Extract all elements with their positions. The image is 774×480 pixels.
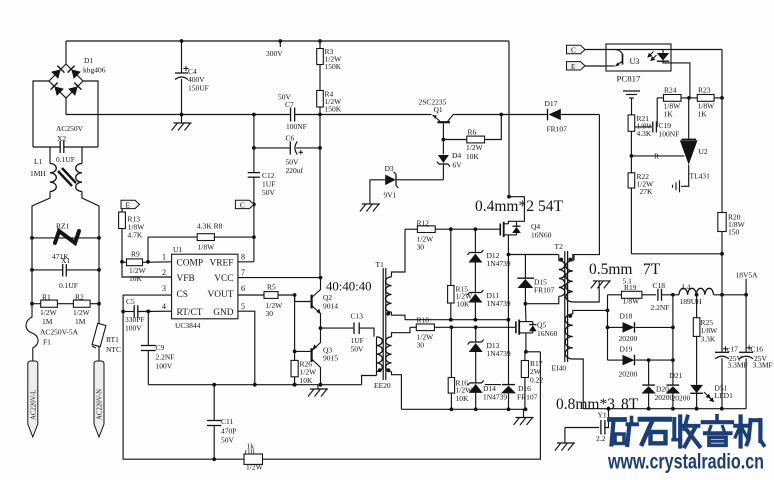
- svg-text:CS: CS: [177, 290, 188, 300]
- svg-text:R19: R19: [624, 283, 637, 292]
- svg-text:16N60: 16N60: [537, 329, 558, 338]
- svg-text:4.3K R8: 4.3K R8: [197, 222, 223, 231]
- svg-text:C5: C5: [126, 297, 135, 306]
- svg-text:0.22: 0.22: [530, 376, 543, 385]
- svg-text:150K: 150K: [325, 62, 342, 71]
- svg-text:1/8W: 1/8W: [623, 297, 641, 306]
- svg-text:AC250V-5A: AC250V-5A: [40, 328, 79, 337]
- svg-text:1N4739: 1N4739: [487, 259, 511, 268]
- svg-text:D18: D18: [620, 312, 633, 321]
- svg-text:C6: C6: [286, 134, 295, 143]
- svg-text:50V: 50V: [262, 188, 276, 197]
- svg-text:8T: 8T: [621, 396, 639, 413]
- svg-text:40:40:40: 40:40:40: [326, 280, 372, 294]
- svg-text:10K: 10K: [456, 394, 470, 403]
- svg-text:www.crystalradio.cn: www.crystalradio.cn: [607, 449, 764, 473]
- svg-text:AC220V-N: AC220V-N: [97, 389, 104, 420]
- svg-text:1M: 1M: [42, 317, 53, 326]
- svg-text:C9: C9: [156, 343, 165, 352]
- svg-text:100NF: 100NF: [286, 122, 307, 131]
- svg-text:0.5mm: 0.5mm: [589, 261, 633, 278]
- svg-text:1/8W: 1/8W: [198, 243, 216, 252]
- svg-text:2.2NF: 2.2NF: [156, 353, 175, 362]
- svg-text:X2: X2: [57, 134, 66, 143]
- svg-text:8: 8: [241, 253, 245, 262]
- svg-text:GND: GND: [213, 308, 234, 318]
- svg-text:C18: C18: [653, 281, 666, 290]
- svg-text:L4: L4: [682, 283, 691, 292]
- svg-text:1: 1: [162, 253, 166, 262]
- svg-text:T1: T1: [376, 260, 385, 269]
- svg-text:1MH: 1MH: [30, 169, 46, 178]
- svg-text:VREF: VREF: [210, 259, 234, 269]
- svg-text:VFB: VFB: [177, 274, 195, 284]
- svg-text:100NF: 100NF: [659, 130, 680, 139]
- svg-text:16N60: 16N60: [531, 231, 552, 240]
- svg-text:C16: C16: [751, 345, 764, 354]
- svg-text:R24: R24: [664, 86, 677, 95]
- svg-text:AC220V-L: AC220V-L: [30, 390, 37, 420]
- svg-text:R6: R6: [468, 128, 477, 137]
- svg-text:54T: 54T: [538, 198, 564, 215]
- svg-text:kbg406: kbg406: [83, 66, 106, 75]
- svg-text:100V: 100V: [125, 324, 142, 333]
- svg-text:FR107: FR107: [517, 393, 538, 402]
- svg-text:9014: 9014: [323, 302, 338, 311]
- svg-text:D1: D1: [84, 56, 93, 65]
- svg-text:6V: 6V: [453, 161, 463, 170]
- svg-text:C13: C13: [351, 312, 364, 321]
- svg-text:R18: R18: [417, 316, 430, 325]
- svg-text:D4: D4: [452, 151, 461, 160]
- svg-text:D17: D17: [545, 99, 558, 108]
- svg-text:0.4mm*2: 0.4mm*2: [475, 198, 534, 215]
- svg-text:150UF: 150UF: [188, 84, 209, 93]
- svg-text:U3: U3: [630, 57, 640, 66]
- svg-text:L1: L1: [34, 157, 43, 166]
- svg-text:5: 5: [241, 302, 245, 311]
- svg-text:50V: 50V: [351, 345, 365, 354]
- svg-text:10K: 10K: [129, 274, 143, 283]
- svg-text:R12: R12: [417, 219, 430, 228]
- svg-text:COMP: COMP: [177, 259, 204, 269]
- svg-text:18V5A: 18V5A: [736, 271, 759, 280]
- svg-text:VOUT: VOUT: [207, 290, 233, 300]
- svg-text:RT/CT: RT/CT: [177, 308, 203, 318]
- svg-text:4.7K: 4.7K: [128, 231, 143, 240]
- svg-text:R1: R1: [42, 293, 51, 302]
- svg-text:D21: D21: [670, 371, 683, 380]
- svg-text:U1: U1: [173, 245, 182, 254]
- svg-text:C: C: [240, 201, 245, 209]
- svg-text:EE20: EE20: [374, 381, 391, 390]
- svg-text:RT1: RT1: [106, 335, 119, 344]
- svg-text:10K: 10K: [466, 152, 480, 161]
- svg-text:220uf: 220uf: [286, 166, 304, 175]
- svg-text:D3: D3: [385, 164, 394, 173]
- svg-text:AC250V: AC250V: [56, 124, 84, 133]
- svg-text:TL431: TL431: [690, 172, 711, 181]
- svg-text:2: 2: [162, 268, 166, 277]
- svg-text:UC3844: UC3844: [175, 321, 201, 330]
- svg-text:3: 3: [162, 284, 166, 293]
- svg-text:c17: c17: [727, 345, 738, 354]
- svg-text:C: C: [571, 47, 576, 55]
- svg-text:LED1: LED1: [715, 391, 734, 400]
- svg-text:6: 6: [241, 284, 245, 293]
- svg-text:0.1UF: 0.1UF: [59, 281, 78, 290]
- svg-text:30: 30: [417, 243, 425, 252]
- svg-text:FR107: FR107: [534, 286, 555, 295]
- svg-text:2.2: 2.2: [596, 434, 606, 443]
- svg-text:1/2W: 1/2W: [246, 463, 264, 472]
- svg-text:20200: 20200: [672, 394, 691, 403]
- svg-text:10K: 10K: [300, 376, 314, 385]
- svg-text:VCC: VCC: [214, 274, 233, 284]
- svg-text:R2: R2: [75, 293, 84, 302]
- svg-text:27K: 27K: [640, 187, 654, 196]
- svg-text:r10: r10: [245, 447, 255, 456]
- svg-text:X1: X1: [61, 256, 70, 265]
- svg-text:1K: 1K: [664, 110, 674, 119]
- svg-text:10K: 10K: [457, 300, 471, 309]
- svg-text:189UH: 189UH: [680, 297, 703, 306]
- svg-text:20200: 20200: [619, 370, 638, 379]
- svg-text:R5: R5: [267, 283, 276, 292]
- svg-text:C7: C7: [285, 100, 294, 109]
- svg-text:E: E: [571, 63, 576, 71]
- svg-text:E: E: [126, 201, 131, 209]
- svg-text:D19: D19: [620, 345, 633, 354]
- svg-text:1N4739: 1N4739: [487, 299, 511, 308]
- svg-text:9015: 9015: [323, 354, 338, 363]
- svg-text:1/2W: 1/2W: [73, 308, 91, 317]
- svg-text:150K: 150K: [325, 105, 342, 114]
- svg-text:1/2W: 1/2W: [466, 143, 484, 152]
- svg-text:3.3MF: 3.3MF: [753, 361, 773, 370]
- svg-text:100V: 100V: [156, 362, 173, 371]
- svg-text:1N4739: 1N4739: [487, 349, 511, 358]
- svg-text:3.3MF: 3.3MF: [728, 361, 748, 370]
- svg-text:1K: 1K: [698, 110, 708, 119]
- svg-text:Q1: Q1: [434, 105, 443, 114]
- svg-text:PC817: PC817: [617, 74, 642, 84]
- svg-text:7: 7: [241, 268, 245, 277]
- svg-text:0.1UF: 0.1UF: [56, 155, 75, 164]
- svg-text:RZ1: RZ1: [56, 222, 70, 231]
- svg-text:150: 150: [728, 228, 740, 237]
- svg-text:470P: 470P: [221, 427, 236, 436]
- svg-text:9V1: 9V1: [384, 191, 397, 200]
- svg-text:1M: 1M: [75, 317, 86, 326]
- svg-text:20200: 20200: [619, 334, 638, 343]
- svg-text:R: R: [654, 152, 659, 161]
- svg-text:3.3K: 3.3K: [701, 335, 716, 344]
- svg-text:C11: C11: [221, 417, 233, 426]
- svg-text:U2: U2: [699, 147, 708, 156]
- svg-text:7T: 7T: [643, 261, 661, 278]
- svg-text:2.2NF: 2.2NF: [651, 303, 670, 312]
- svg-text:0.8mm*3: 0.8mm*3: [556, 396, 615, 413]
- svg-text:FR107: FR107: [547, 125, 568, 134]
- svg-text:R23: R23: [698, 86, 711, 95]
- svg-text:4.3K: 4.3K: [637, 129, 652, 138]
- svg-text:4: 4: [162, 302, 166, 311]
- svg-text:30: 30: [266, 309, 274, 318]
- svg-text:T2: T2: [555, 242, 564, 251]
- svg-text:30: 30: [417, 341, 425, 350]
- svg-text:300V: 300V: [266, 49, 283, 58]
- svg-text:NTC: NTC: [106, 345, 121, 354]
- svg-text:50V: 50V: [221, 436, 235, 445]
- svg-text:R9: R9: [131, 250, 140, 259]
- svg-text:F1: F1: [43, 338, 51, 347]
- svg-text:1N4739: 1N4739: [483, 393, 507, 402]
- svg-text:EI40: EI40: [552, 364, 567, 373]
- svg-text:1/2W: 1/2W: [40, 308, 58, 317]
